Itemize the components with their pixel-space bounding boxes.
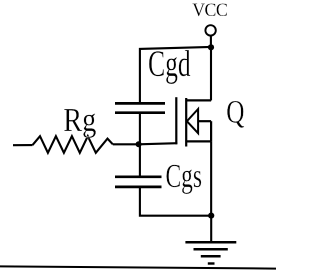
resistor Rg [33,136,113,153]
body arrow head [187,109,198,133]
svg-text:Cgd: Cgd [148,43,191,84]
wire gate node to gate [113,143,178,144]
body to source vertical [210,121,212,141]
gate bar [175,97,177,144]
ground [185,216,236,264]
wire source to junction [210,141,212,215]
body arrow line [198,120,211,122]
wire VCC terminal to drain junction [210,36,212,48]
svg-text:Rg: Rg [63,101,96,139]
junction source node [208,213,214,219]
junction drain node [208,44,214,50]
wire drain to junction [210,47,212,100]
svg-text:VCC: VCC [192,0,227,20]
wire gate node to Cgs top lead [139,144,141,177]
wire input lead [13,144,33,146]
terminal VCC [205,25,215,35]
node gate junction [136,141,142,147]
transistor Q (N-MOSFET) [176,97,211,146]
svg-text:Cgs: Cgs [166,158,202,195]
wire Cgd bottom lead to gate node [139,113,141,145]
wire Cgs bottom lead to source junction [140,187,211,216]
capacitor Cgd [115,103,165,112]
source stub [186,140,211,142]
svg-text:Q: Q [226,95,244,131]
capacitor Cgs [115,177,162,187]
wire top: junction to Cgd top lead [140,47,211,104]
drain stub [186,99,211,101]
channel bar [185,98,187,147]
